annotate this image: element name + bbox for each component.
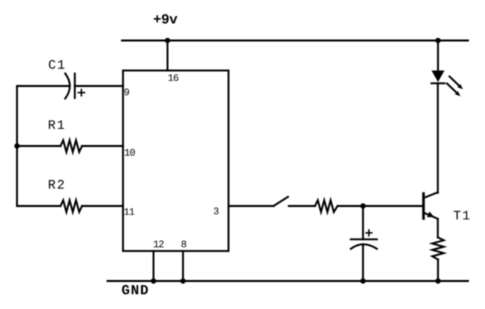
node junction left bus / R1 xyxy=(14,143,19,148)
LED D1 light arrow 2 head xyxy=(455,91,461,96)
capacitor C1 straight plate xyxy=(74,74,76,99)
R1 label xyxy=(49,120,64,129)
wire junction down to C2 xyxy=(362,206,364,239)
LED D1 triangle xyxy=(432,71,445,83)
LED D1 light arrow 2 shaft xyxy=(447,84,458,94)
wire pin 16 to +9v rail xyxy=(167,41,169,71)
wire +9v rail down to LED anode xyxy=(437,41,439,72)
wire C1 left lead xyxy=(17,85,69,87)
transistor T1 emitter diagonal xyxy=(424,213,438,219)
wire C2 to GND rail xyxy=(362,244,364,281)
transistor T1 collector diagonal xyxy=(424,192,438,198)
pin 16 label xyxy=(168,74,178,81)
wire GND bottom rail xyxy=(108,280,469,282)
wire left bus vertical (C1/R1/R2) xyxy=(16,86,18,206)
pin 12 label xyxy=(154,241,164,248)
wire C1 right lead to pin 9 xyxy=(75,85,123,87)
R2 label xyxy=(49,180,64,189)
+9v net label xyxy=(154,14,178,24)
wire R2 right lead to pin 11 xyxy=(82,205,123,207)
LED D1 light arrow 1 head xyxy=(457,84,463,89)
resistor R3 zigzag xyxy=(315,200,338,212)
wire R4 to GND rail xyxy=(437,260,439,282)
pin 3 label xyxy=(214,208,219,215)
wire +9v top rail xyxy=(122,40,468,42)
capacitor C2 polarity plus xyxy=(366,230,372,236)
wire R2 left lead xyxy=(17,205,61,207)
pin 10 label xyxy=(125,149,135,156)
switch S1 lever (open) xyxy=(274,197,288,206)
resistor R4 vertical zigzag xyxy=(432,238,443,260)
node junction C2 / GND rail xyxy=(360,278,365,283)
node junction R3 / C2 branch xyxy=(360,203,365,208)
transistor T1 emitter arrowhead xyxy=(427,212,434,218)
LED D1 cathode bar xyxy=(432,82,445,84)
pin 11 label xyxy=(124,208,134,215)
node junction +9v rail / LED branch xyxy=(435,38,440,43)
wire R3 to T1 base xyxy=(338,205,423,207)
GND net label xyxy=(122,285,148,295)
wire LED cathode down to T1 collector xyxy=(437,83,439,193)
wire pin 3 to switch xyxy=(229,205,274,207)
capacitor C2 straight top plate xyxy=(351,238,377,240)
capacitor C1 curved plate xyxy=(65,74,70,99)
wire T1 emitter down to R4 xyxy=(437,219,439,238)
transistor T1 base bar xyxy=(422,194,425,219)
node junction pin 12 / GND rail xyxy=(151,278,156,283)
LED D1 light arrow 1 shaft xyxy=(450,77,461,87)
wire switch to R3 xyxy=(289,205,315,207)
T1 label xyxy=(454,211,470,220)
wire pin 12 to GND rail xyxy=(153,251,155,281)
pin 9 label xyxy=(124,89,129,96)
node junction +9v rail / pin 16 wire xyxy=(165,38,170,43)
C1 label xyxy=(49,60,64,69)
capacitor C2 curved bottom plate xyxy=(351,244,377,249)
resistor R1 zigzag xyxy=(61,140,83,152)
wire R1 right lead to pin 10 xyxy=(82,145,123,147)
node junction pin 8 / GND rail xyxy=(180,278,185,283)
capacitor C1 polarity plus xyxy=(78,90,84,96)
IC U1 body (16-pin timer) xyxy=(123,71,229,252)
wire pin 8 to GND rail xyxy=(182,251,184,281)
pin 8 label xyxy=(182,241,187,248)
resistor R2 zigzag xyxy=(61,200,83,212)
wire R1 left lead xyxy=(17,145,61,147)
node junction R4 / GND rail xyxy=(435,278,440,283)
